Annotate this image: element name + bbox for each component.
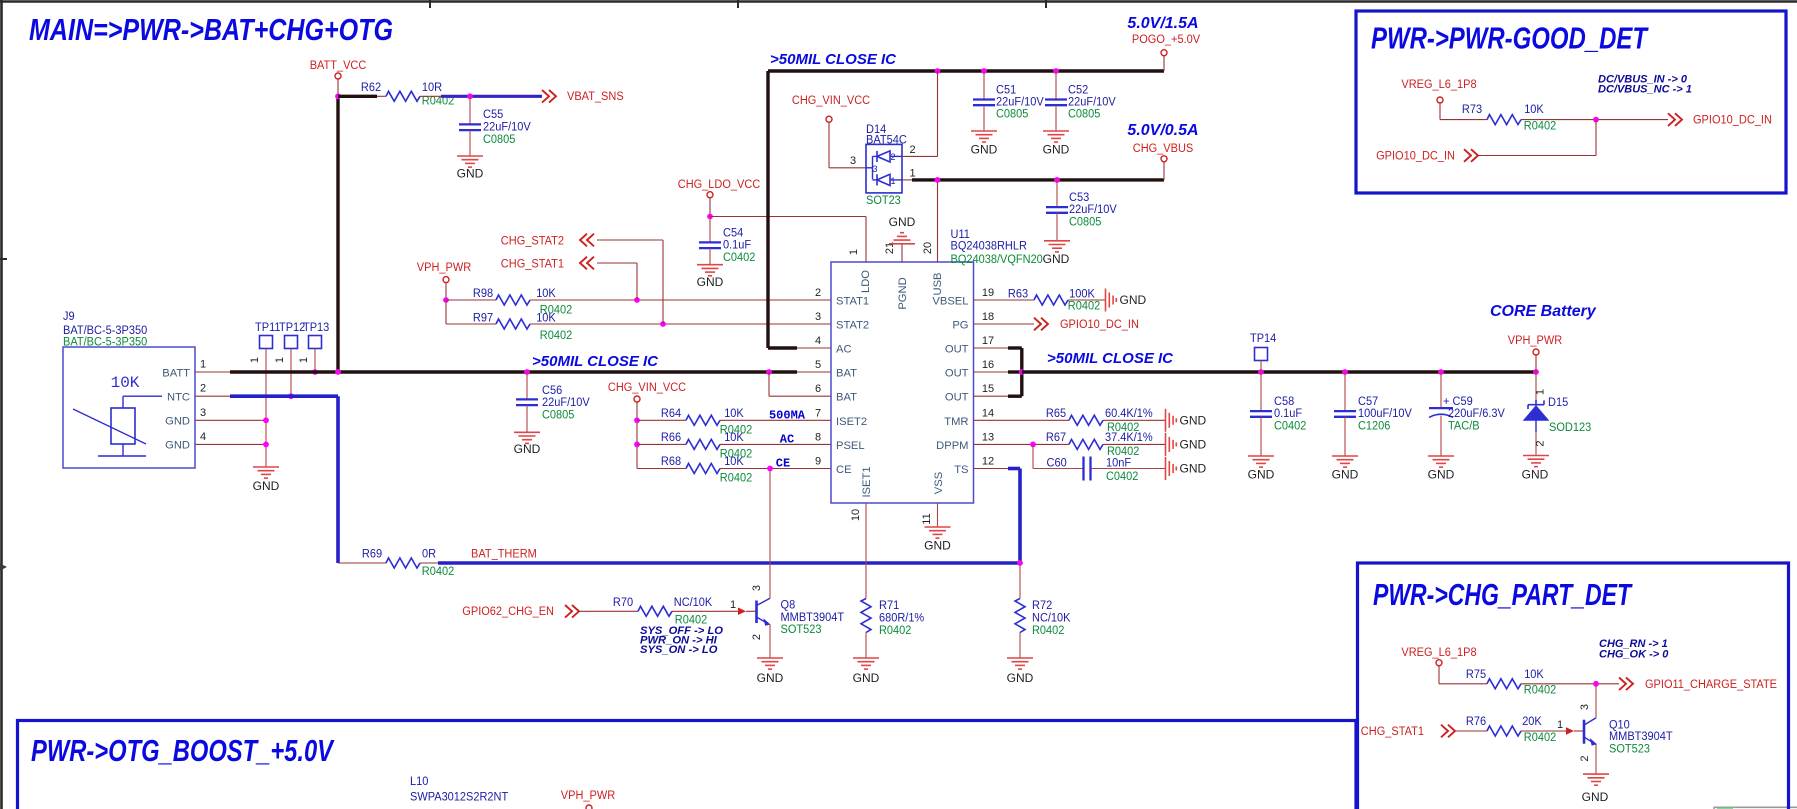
node junction BATT/BATT_VCC xyxy=(335,369,341,375)
svg-text:GND: GND xyxy=(1582,790,1609,804)
svg-text:OUT: OUT xyxy=(945,344,969,356)
svg-text:R0402: R0402 xyxy=(422,564,455,578)
port GPIO10_DC_IN (out) xyxy=(1668,113,1772,127)
svg-text:SOT23: SOT23 xyxy=(866,193,901,207)
svg-text:GND: GND xyxy=(1180,437,1207,451)
svg-text:GND: GND xyxy=(165,440,190,452)
svg-text:10R: 10R xyxy=(422,80,442,94)
svg-text:TP13: TP13 xyxy=(303,320,329,334)
node junction GPIO10 xyxy=(1593,117,1599,123)
U11 pin 11 VSS xyxy=(921,472,945,527)
wire AC pin stub xyxy=(797,347,831,349)
svg-text:9: 9 xyxy=(815,456,821,468)
svg-text:DPPM: DPPM xyxy=(936,440,968,452)
svg-text:OUT: OUT xyxy=(945,368,969,380)
svg-text:PWR->OTG_BOOST_+5.0V: PWR->OTG_BOOST_+5.0V xyxy=(31,733,335,768)
U11 pin 5 BAT xyxy=(815,359,857,380)
resistor R97 10K xyxy=(446,300,831,342)
U11 pin 10 ISET1 xyxy=(850,466,873,521)
ground C56 xyxy=(514,432,541,456)
svg-text:17: 17 xyxy=(982,335,994,347)
hierarchical box PWR->OTG_BOOST_+5.0V xyxy=(18,721,1357,809)
svg-text:11: 11 xyxy=(921,513,933,524)
U11 pin 9 CE xyxy=(815,456,852,477)
svg-text:16: 16 xyxy=(982,359,994,371)
svg-text:1: 1 xyxy=(249,357,261,363)
svg-text:C0805: C0805 xyxy=(542,407,575,421)
svg-text:BAT: BAT xyxy=(836,392,857,404)
diode D15 SOD123 xyxy=(1524,372,1592,456)
svg-text:10K: 10K xyxy=(724,454,744,468)
node junction rail/C59 xyxy=(1438,369,1444,375)
svg-text:R0402: R0402 xyxy=(1032,623,1065,637)
svg-text:C0805: C0805 xyxy=(996,107,1029,121)
svg-text:C0805: C0805 xyxy=(1069,215,1102,229)
ground R67 (sideways) xyxy=(1166,433,1207,456)
svg-text:C0805: C0805 xyxy=(1068,107,1101,121)
note DC/VBUS_IN/NC xyxy=(1598,74,1692,96)
U11 pin 6 BAT xyxy=(815,383,857,404)
svg-text:AC: AC xyxy=(780,432,794,446)
node junction BAT_THERM/R72 xyxy=(1017,560,1023,566)
svg-text:C0402: C0402 xyxy=(723,250,756,264)
svg-text:BAT: BAT xyxy=(836,368,857,380)
test point TP14 xyxy=(1250,331,1276,372)
svg-text:R69: R69 xyxy=(362,547,382,561)
resistor R68 10K xyxy=(637,454,831,485)
capacitor C59 220uF/6.3V (polarized) xyxy=(1429,372,1506,456)
svg-text:VREG_L6_1P8: VREG_L6_1P8 xyxy=(1401,645,1476,659)
svg-text:VPH_PWR: VPH_PWR xyxy=(1508,333,1563,347)
svg-text:AC: AC xyxy=(836,344,852,356)
svg-text:R0402: R0402 xyxy=(720,471,753,485)
node junction rail/C52 xyxy=(1053,68,1059,74)
capacitor C52 22uF/10V xyxy=(1045,71,1116,131)
resistor R73 10K xyxy=(1462,102,1556,133)
svg-text:CORE Battery: CORE Battery xyxy=(1490,303,1597,320)
hierarchical box PWR->PWR-GOOD_DET xyxy=(1356,11,1786,193)
svg-text:GND: GND xyxy=(1522,468,1549,482)
svg-text:GND: GND xyxy=(889,215,916,229)
svg-text:GND: GND xyxy=(697,275,724,289)
wire R70 to Q8 base xyxy=(672,610,738,612)
node junction CHG_VBUS/C53 xyxy=(1054,177,1060,183)
svg-text:GND: GND xyxy=(1043,143,1070,157)
svg-text:GPIO10_DC_IN: GPIO10_DC_IN xyxy=(1060,317,1139,331)
svg-text:37.4K/1%: 37.4K/1% xyxy=(1105,430,1153,444)
svg-text:SOT523: SOT523 xyxy=(781,622,822,636)
svg-text:C60: C60 xyxy=(1047,456,1067,470)
U11 pin 1 LDO xyxy=(848,249,872,293)
svg-text:PWR->PWR-GOOD_DET: PWR->PWR-GOOD_DET xyxy=(1371,21,1649,56)
node junction CE/Q8 xyxy=(767,466,773,472)
connector J9 BAT/BC-5-3P350 xyxy=(63,309,195,468)
svg-text:R0402: R0402 xyxy=(1524,119,1557,133)
svg-text:GND: GND xyxy=(1120,293,1147,307)
svg-text:GND: GND xyxy=(1180,413,1207,427)
svg-text:VREG_L6_1P8: VREG_L6_1P8 xyxy=(1401,77,1476,91)
inductor L10 label xyxy=(410,774,509,804)
power flag VPH_PWR (left) xyxy=(417,260,472,300)
svg-text:VPH_PWR: VPH_PWR xyxy=(417,260,472,274)
svg-text:10: 10 xyxy=(850,509,862,521)
ground C60 (sideways) xyxy=(1166,457,1207,480)
port GPIO10_DC_IN (in) xyxy=(1376,120,1596,163)
power flag CHG_LDO_VCC xyxy=(678,177,761,217)
node junction R98 tap xyxy=(443,297,449,303)
ground R71 xyxy=(853,658,880,685)
svg-text:3: 3 xyxy=(850,155,856,167)
resistor R69 0R xyxy=(362,547,454,579)
wire R76 to Q10 base xyxy=(1521,730,1566,732)
node junction GPIO11 xyxy=(1593,681,1599,687)
svg-text:GPIO10_DC_IN: GPIO10_DC_IN xyxy=(1376,149,1455,163)
svg-text:R68: R68 xyxy=(661,454,681,468)
capacitor C53 22uF/10V xyxy=(1046,180,1117,241)
ground PGND (inverted) xyxy=(889,215,916,244)
wire BATT_VCC to R62 xyxy=(338,95,386,98)
node junction CHG_VBUS/USB xyxy=(935,177,941,183)
svg-text:R65: R65 xyxy=(1046,406,1066,420)
svg-text:PSEL: PSEL xyxy=(836,440,865,452)
wire GPIO62_CHG_EN to R70 xyxy=(578,610,638,612)
capacitor C51 22uF/10V xyxy=(973,71,1044,131)
svg-text:1: 1 xyxy=(848,249,860,255)
ground C52 xyxy=(1043,131,1070,157)
svg-text:1: 1 xyxy=(909,168,915,180)
power flag BATT_VCC xyxy=(310,58,367,96)
thermistor symbol inside J9 (10K) xyxy=(73,374,162,456)
svg-text:R73: R73 xyxy=(1462,102,1482,116)
node junction STAT1/CHG_STAT1 xyxy=(634,297,640,303)
svg-text:R0402: R0402 xyxy=(1524,683,1557,697)
svg-text:GND: GND xyxy=(924,539,951,553)
svg-text:R0402: R0402 xyxy=(1524,730,1557,744)
node junction BATT/pin6 xyxy=(766,369,772,375)
wire OUT pins bus (thick) xyxy=(974,348,1022,396)
svg-text:GPIO10_DC_IN: GPIO10_DC_IN xyxy=(1693,113,1772,127)
resistor R76 20K xyxy=(1466,714,1556,744)
node junction R64 tap xyxy=(634,417,640,423)
power flag POGO_+5.0V xyxy=(1127,15,1200,71)
U11 pin 20 USB xyxy=(922,180,944,296)
svg-text:PWR->CHG_PART_DET: PWR->CHG_PART_DET xyxy=(1373,577,1633,612)
power flag VREG_L6_1P8 (bottom box) xyxy=(1401,645,1487,684)
capacitor C58 0.1uF xyxy=(1250,372,1307,456)
test point TP12 xyxy=(274,320,305,396)
svg-text:12: 12 xyxy=(982,456,994,468)
svg-text:19: 19 xyxy=(982,287,994,299)
node junction BATT_VCC/R62 xyxy=(335,93,341,99)
svg-text:OUT: OUT xyxy=(945,392,969,404)
svg-text:2: 2 xyxy=(751,634,763,640)
wire R75 to port xyxy=(1521,683,1619,685)
wire BAT pin5 stub xyxy=(797,371,831,373)
resistor R70 NC/10K xyxy=(613,595,713,627)
node junction BATT/C56 xyxy=(524,369,530,375)
svg-text:CHG_VIN_VCC: CHG_VIN_VCC xyxy=(608,380,686,394)
resistor R98 10K xyxy=(446,286,831,317)
svg-text:GND: GND xyxy=(165,416,190,428)
svg-text:GPIO62_CHG_EN: GPIO62_CHG_EN xyxy=(462,604,554,618)
svg-text:PG: PG xyxy=(952,320,968,332)
svg-text:TS: TS xyxy=(954,464,968,476)
svg-text:R67: R67 xyxy=(1046,430,1066,444)
capacitor C55 22uF/10V xyxy=(459,96,531,156)
svg-text:1: 1 xyxy=(200,359,206,371)
svg-text:10K: 10K xyxy=(111,374,140,392)
svg-text:ISET1: ISET1 xyxy=(861,466,873,497)
svg-text:BQ24038RHLR: BQ24038RHLR xyxy=(951,239,1027,253)
svg-text:GND: GND xyxy=(1428,468,1455,482)
svg-text:BAT/BC-5-3P350: BAT/BC-5-3P350 xyxy=(63,335,147,349)
svg-text:L10: L10 xyxy=(410,774,429,788)
svg-text:1: 1 xyxy=(730,599,736,611)
svg-text:6: 6 xyxy=(815,383,821,395)
resistor R75 10K xyxy=(1466,667,1556,697)
svg-text:C1206: C1206 xyxy=(1358,419,1391,433)
port GPIO62_CHG_EN xyxy=(462,604,579,618)
port VBAT_SNS xyxy=(542,89,624,103)
svg-text:3: 3 xyxy=(751,585,763,591)
wire BATT net (thick) J9 to U11 BAT xyxy=(230,370,797,373)
capacitor C54 0.1uF xyxy=(699,217,756,265)
port CHG_STAT2 xyxy=(501,234,663,325)
capacitor C56 22uF/10V xyxy=(516,372,590,432)
svg-text:VPH_PWR: VPH_PWR xyxy=(561,788,616,802)
diode D14 BAT54C xyxy=(866,122,907,207)
svg-text:2: 2 xyxy=(1579,755,1591,761)
node junction rail/C57 xyxy=(1342,369,1348,375)
svg-text:GND: GND xyxy=(971,143,998,157)
resistor R66 10K xyxy=(637,430,831,461)
svg-text:GND: GND xyxy=(1007,671,1034,685)
svg-text:GPIO11_CHARGE_STATE: GPIO11_CHARGE_STATE xyxy=(1645,677,1777,691)
svg-text:R0402: R0402 xyxy=(879,623,912,637)
ground Q8 emitter xyxy=(757,658,784,685)
svg-text:>50MIL CLOSE IC: >50MIL CLOSE IC xyxy=(770,51,897,68)
node junction DPPM/C60 xyxy=(1030,442,1036,448)
svg-text:2: 2 xyxy=(909,144,915,156)
svg-text:R62: R62 xyxy=(361,80,381,94)
svg-text:10nF: 10nF xyxy=(1106,456,1132,470)
U11 pin 19 VBSEL xyxy=(932,287,994,308)
svg-text:TAC/B: TAC/B xyxy=(1448,419,1480,433)
J9 pin 4 GND xyxy=(165,431,266,452)
svg-text:VBAT_SNS: VBAT_SNS xyxy=(567,89,624,103)
svg-text:C0402: C0402 xyxy=(1106,469,1139,483)
svg-text:GND: GND xyxy=(1332,468,1359,482)
U11 pin 16 OUT xyxy=(945,359,994,380)
svg-text:GND: GND xyxy=(757,671,784,685)
U11 pin 12 TS xyxy=(954,456,994,477)
resistor R62 10R xyxy=(361,80,454,108)
svg-text:GND: GND xyxy=(253,479,280,493)
svg-text:VBSEL: VBSEL xyxy=(932,296,968,308)
hierarchical box PWR->CHG_PART_DET xyxy=(1358,563,1789,809)
svg-text:CHG_VIN_VCC: CHG_VIN_VCC xyxy=(792,93,870,107)
svg-text:GND: GND xyxy=(853,671,880,685)
port GPIO10_DC_IN (PG) xyxy=(974,317,1139,331)
resistor R71 680R/1% xyxy=(861,503,924,658)
svg-text:10K: 10K xyxy=(724,406,744,420)
IC U11 BQ24038RHLR xyxy=(831,227,1043,503)
ground C55 xyxy=(457,156,484,181)
note SYS_OFF/PWR_ON/SYS_ON xyxy=(640,625,723,656)
resistor R67 37.4K/1% xyxy=(974,430,1166,458)
svg-text:NC/10K: NC/10K xyxy=(674,595,713,609)
transistor Q8 MMBT3904T xyxy=(746,585,845,658)
svg-text:POGO_+5.0V: POGO_+5.0V xyxy=(1132,32,1201,46)
svg-text:1: 1 xyxy=(274,357,286,363)
port CHG_STAT1 xyxy=(501,257,637,301)
svg-text:5.0V/1.5A: 5.0V/1.5A xyxy=(1127,15,1198,32)
resistor R63 100K xyxy=(974,287,1106,313)
U11 pin 4 AC xyxy=(815,335,852,356)
port GPIO11_CHARGE_STATE xyxy=(1619,677,1777,691)
node junction rail/C51 xyxy=(981,68,987,74)
svg-text:C0402: C0402 xyxy=(1274,419,1307,433)
capacitor C57 100uF/10V xyxy=(1334,372,1413,456)
ground C54 xyxy=(697,265,724,289)
svg-text:TP11: TP11 xyxy=(255,320,281,334)
svg-text:CE: CE xyxy=(776,457,790,471)
power flag VPH_PWR (right) xyxy=(1508,333,1563,372)
svg-text:BQ24038/VQFN20: BQ24038/VQFN20 xyxy=(951,252,1043,266)
svg-text:20K: 20K xyxy=(1522,714,1542,728)
ground VSS xyxy=(924,527,951,553)
svg-text:10K: 10K xyxy=(1524,667,1544,681)
U11 pin 8 PSEL xyxy=(815,431,865,452)
U11 pin 17 OUT xyxy=(945,335,994,356)
svg-text:R0402: R0402 xyxy=(540,328,573,342)
svg-text:C0805: C0805 xyxy=(483,132,516,146)
node junction STAT2/CHG_STAT2 xyxy=(660,321,666,327)
U11 pin 18 PG xyxy=(952,311,994,332)
svg-text:1: 1 xyxy=(298,357,310,363)
svg-text:GND: GND xyxy=(457,167,484,181)
J9 pin 3 GND xyxy=(165,407,266,428)
svg-text:R76: R76 xyxy=(1466,714,1486,728)
svg-text:14: 14 xyxy=(982,407,994,419)
svg-text:SWPA3012S2R2NT: SWPA3012S2R2NT xyxy=(410,790,509,804)
node junction TP13/BATT xyxy=(312,369,318,375)
svg-text:1: 1 xyxy=(1535,389,1547,395)
node junction TP12/NTC xyxy=(288,393,294,399)
svg-text:>50MIL CLOSE IC: >50MIL CLOSE IC xyxy=(1047,350,1174,367)
svg-text:2: 2 xyxy=(815,287,821,299)
resistor R72 NC/10K xyxy=(1015,563,1071,658)
svg-text:R70: R70 xyxy=(613,595,633,609)
svg-text:DC/VBUS_NC -> 1: DC/VBUS_NC -> 1 xyxy=(1598,84,1692,96)
svg-text:1: 1 xyxy=(890,176,895,186)
power flag VREG_L6_1P8 (top box) xyxy=(1401,77,1487,120)
node junction rail/D15 xyxy=(1533,369,1539,375)
wire BATT_VCC vertical (thick) xyxy=(336,96,339,372)
svg-text:5.0V/0.5A: 5.0V/0.5A xyxy=(1127,122,1198,139)
Q8 base arrow xyxy=(738,608,746,616)
svg-text:4: 4 xyxy=(200,431,206,443)
svg-text:13: 13 xyxy=(982,431,994,443)
svg-text:10K: 10K xyxy=(536,286,556,300)
node junction rail/TP14 xyxy=(1258,369,1264,375)
svg-text:10K: 10K xyxy=(536,311,556,325)
svg-text:GND: GND xyxy=(514,442,541,456)
svg-text:500MA: 500MA xyxy=(769,408,806,422)
svg-text:D15: D15 xyxy=(1548,395,1568,409)
svg-text:CHG_LDO_VCC: CHG_LDO_VCC xyxy=(678,177,761,191)
svg-text:SOT523: SOT523 xyxy=(1609,742,1650,756)
node junction OUT bus xyxy=(1019,369,1025,375)
ground Q10 xyxy=(1582,774,1609,804)
wire VBAT_SNS (thick navy) xyxy=(420,95,542,97)
wire CHG_VBUS rail (thick) xyxy=(912,178,1164,181)
svg-text:7: 7 xyxy=(815,407,821,419)
svg-text:2: 2 xyxy=(200,383,206,395)
svg-text:R66: R66 xyxy=(661,430,681,444)
svg-text:4: 4 xyxy=(815,335,821,347)
svg-text:2: 2 xyxy=(890,152,895,162)
svg-text:CHG_VBUS: CHG_VBUS xyxy=(1133,141,1194,155)
svg-text:5: 5 xyxy=(815,359,821,371)
test point TP13 xyxy=(298,320,329,372)
ground D15 xyxy=(1522,456,1549,482)
wire Q10 collector xyxy=(1595,684,1597,718)
wire D14 pin2 to rail xyxy=(902,71,938,156)
svg-text:CHG_OK -> 0: CHG_OK -> 0 xyxy=(1599,649,1669,661)
wire elbow to R69 xyxy=(338,562,386,564)
wire CHG_LDO_VCC to LDO pin1 xyxy=(710,217,866,263)
svg-text:15: 15 xyxy=(982,383,994,395)
svg-text:CE: CE xyxy=(836,464,852,476)
U11 pin 13 DPPM xyxy=(936,431,994,452)
J9 pin 2 NTC xyxy=(167,383,230,404)
svg-text:LDO: LDO xyxy=(860,270,872,293)
node junction TP11/GND3 xyxy=(263,417,269,423)
port CHG_STAT1 (in) xyxy=(1361,724,1487,738)
wire BAT_THERM (thick blue) to TS xyxy=(420,469,1020,564)
svg-text:TP14: TP14 xyxy=(1250,331,1276,345)
ground R63 (sideways) xyxy=(1106,289,1147,312)
svg-text:>50MIL CLOSE IC: >50MIL CLOSE IC xyxy=(532,353,659,370)
wire NTC/BAT_THERM net (thick blue) xyxy=(230,396,338,563)
U11 pin 15 OUT xyxy=(945,383,994,404)
U11 pin 7 ISET2 xyxy=(815,407,867,428)
svg-text:BATT: BATT xyxy=(162,367,190,379)
svg-text:10K: 10K xyxy=(1524,102,1544,116)
svg-text:VSS: VSS xyxy=(933,472,945,494)
svg-text:R98: R98 xyxy=(473,286,493,300)
svg-text:MAIN=>PWR->BAT+CHG+OTG: MAIN=>PWR->BAT+CHG+OTG xyxy=(29,12,393,47)
svg-text:TMR: TMR xyxy=(944,416,968,428)
wire R73 to port xyxy=(1521,119,1668,121)
ground TP11 column xyxy=(253,467,280,493)
svg-text:0R: 0R xyxy=(422,547,436,561)
svg-text:STAT2: STAT2 xyxy=(836,320,869,332)
power flag VPH_PWR (bottom) xyxy=(561,788,616,809)
svg-text:GND: GND xyxy=(1180,462,1207,476)
svg-text:BATT_VCC: BATT_VCC xyxy=(310,58,367,72)
node junction C55 tap xyxy=(467,93,473,99)
ground C53 xyxy=(1043,241,1070,266)
svg-text:CHG_STAT2: CHG_STAT2 xyxy=(501,234,564,248)
svg-text:60.4K/1%: 60.4K/1% xyxy=(1105,406,1153,420)
svg-text:R0402: R0402 xyxy=(1068,299,1101,313)
ground C51 xyxy=(971,131,998,157)
wire BAT pin6 branch xyxy=(769,372,831,396)
U11 pin 14 TMR xyxy=(944,407,994,428)
wire Q8 collector to CE net xyxy=(769,469,771,599)
